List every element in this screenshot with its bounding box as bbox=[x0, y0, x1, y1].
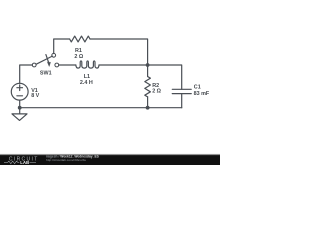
value 2 Ohm R2 bbox=[152, 88, 161, 94]
wire V1 top to switch bbox=[20, 65, 33, 83]
svg-text:2 Ω: 2 Ω bbox=[74, 54, 83, 60]
value 2.4 H bbox=[80, 80, 93, 86]
label SW1 bbox=[40, 70, 52, 76]
footer text line 1 bbox=[46, 155, 100, 159]
value 83 mF bbox=[194, 91, 210, 97]
label R2 bbox=[152, 83, 159, 89]
junction dot R2 bottom bbox=[146, 106, 150, 110]
wire node M to R2 bbox=[147, 65, 149, 77]
voltage source V1 bbox=[11, 83, 28, 100]
wire R2 to bottom rail bbox=[147, 97, 149, 108]
svg-text:LAB: LAB bbox=[20, 160, 29, 165]
footer text line 2 bbox=[46, 158, 87, 162]
wire switch top throw to top rail bbox=[54, 39, 70, 54]
wire V1 to ground junction bbox=[19, 100, 21, 108]
svg-text:R1: R1 bbox=[75, 48, 82, 54]
inductor L1 bbox=[76, 61, 99, 68]
value 8 V bbox=[31, 93, 39, 99]
resistor R1 bbox=[70, 36, 90, 42]
ground bbox=[12, 108, 27, 121]
label V1 bbox=[31, 88, 38, 94]
svg-text:SW1: SW1 bbox=[40, 70, 52, 76]
footer bar bbox=[0, 154, 220, 165]
wire L1 to right corner down to C1 bbox=[99, 65, 182, 89]
bottom rail wire bbox=[20, 107, 182, 109]
node M junction dot bbox=[146, 63, 150, 67]
footer logo LAB text bbox=[20, 160, 29, 165]
label L1 bbox=[84, 74, 90, 80]
switch SW1 bbox=[32, 53, 58, 67]
capacitor C1 bbox=[172, 89, 191, 93]
value 2 Ohm R1 bbox=[74, 54, 83, 60]
svg-text:8 V: 8 V bbox=[31, 93, 39, 99]
svg-text:C1: C1 bbox=[194, 85, 201, 91]
resistor R2 bbox=[145, 77, 151, 97]
wire C1 to bottom rail bbox=[181, 94, 183, 108]
svg-text:83 mF: 83 mF bbox=[194, 91, 210, 97]
svg-text:2.4 H: 2.4 H bbox=[80, 80, 93, 86]
label C1 bbox=[194, 85, 201, 91]
wire switch right throw to L1 bbox=[59, 64, 76, 66]
wire R1 to right corner down to node M bbox=[90, 39, 148, 63]
footer logo CIRCUIT bbox=[9, 157, 39, 163]
junction dot V1 bottom bbox=[18, 106, 22, 110]
svg-text:http://circuitlab.com/c9bnu3w: http://circuitlab.com/c9bnu3w bbox=[46, 158, 87, 162]
svg-text:2 Ω: 2 Ω bbox=[152, 88, 161, 94]
footer logo wire and zigzag bbox=[4, 161, 36, 164]
label R1 bbox=[75, 48, 82, 54]
